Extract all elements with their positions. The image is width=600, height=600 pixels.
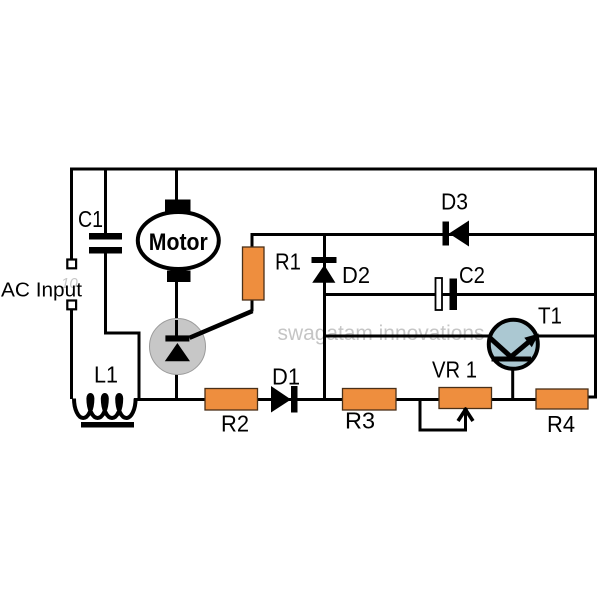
svg-text:C1: C1 xyxy=(78,206,103,232)
svg-text:D1: D1 xyxy=(272,364,300,390)
svg-text:swagatam innovations: swagatam innovations xyxy=(278,321,485,345)
svg-text:Motor: Motor xyxy=(149,229,208,256)
svg-text:T1: T1 xyxy=(538,303,562,329)
svg-text:D3: D3 xyxy=(441,189,468,215)
svg-text:R2: R2 xyxy=(221,411,249,437)
svg-text:VR 1: VR 1 xyxy=(432,357,477,383)
svg-text:D2: D2 xyxy=(342,262,370,288)
svg-text:R4: R4 xyxy=(547,411,575,437)
svg-text:C2: C2 xyxy=(459,262,485,288)
svg-text:R1: R1 xyxy=(275,249,301,275)
svg-text:L1: L1 xyxy=(94,362,118,388)
svg-text:AC Input: AC Input xyxy=(1,280,82,302)
svg-text:R3: R3 xyxy=(345,408,375,434)
